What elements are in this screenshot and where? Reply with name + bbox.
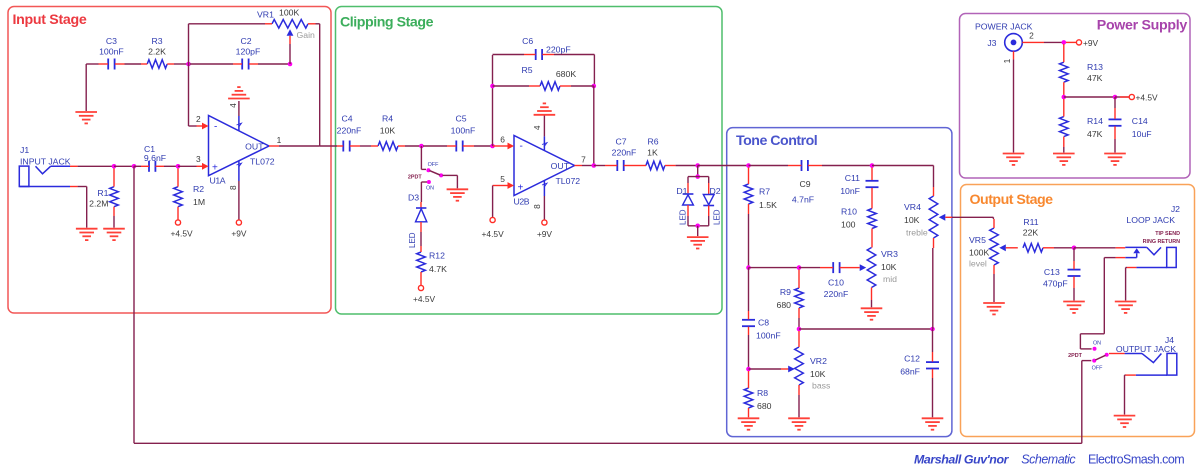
- svg-text:-: -: [214, 122, 217, 133]
- svg-text:10K: 10K: [904, 215, 920, 225]
- svg-text:D2: D2: [710, 186, 721, 196]
- label R6: [647, 137, 659, 158]
- caption Schematic: [1021, 453, 1076, 467]
- svg-text:TIP SEND: TIP SEND: [1155, 231, 1180, 237]
- wire bypass bottom: [134, 442, 1082, 444]
- label R2: [193, 184, 205, 207]
- wire switch common to ground: [443, 175, 458, 188]
- wire VR4 wiper to VR5: [945, 217, 993, 219]
- label D2: [710, 186, 722, 225]
- node U2B out: [592, 163, 597, 168]
- svg-text:VR5: VR5: [969, 235, 986, 245]
- wire feedback top left: [493, 54, 525, 56]
- svg-text:treble: treble: [906, 228, 928, 238]
- svg-text:C11: C11: [845, 173, 860, 183]
- resistor R8: [744, 371, 753, 417]
- resistor R7: [744, 168, 753, 215]
- wire C1 to node R2: [164, 165, 178, 167]
- capacitor C10: [820, 262, 852, 273]
- svg-text:100nF: 100nF: [756, 331, 781, 341]
- label VR3: [881, 249, 898, 284]
- label R3: [148, 36, 166, 57]
- wire switch OFF to bypass: [1082, 361, 1092, 444]
- svg-text:RING RETURN: RING RETURN: [1143, 239, 1181, 245]
- label D3: [408, 193, 419, 249]
- potentiometer VR3: [860, 248, 876, 308]
- label C10: [824, 278, 849, 300]
- svg-text:C8: C8: [758, 318, 769, 328]
- resistor R11: [1023, 244, 1054, 253]
- svg-text:ON: ON: [426, 186, 434, 192]
- pin 8 U1A: [228, 181, 239, 220]
- label R7: [759, 187, 777, 211]
- label VR2: [810, 356, 831, 391]
- pin 6 U2B: [500, 135, 514, 150]
- node R9 top: [797, 265, 802, 270]
- svg-text:R5: R5: [521, 65, 532, 75]
- caption ElectroSmash.com: [1088, 453, 1184, 467]
- ground C13: [1063, 302, 1085, 313]
- svg-text:C13: C13: [1044, 267, 1060, 277]
- wire node to C2: [190, 63, 233, 65]
- ground U1A pin4: [228, 87, 250, 98]
- label R8: [757, 388, 772, 411]
- svg-text:bass: bass: [812, 381, 831, 391]
- wire C5 to node: [474, 145, 493, 147]
- svg-text:INPUT JACK: INPUT JACK: [20, 157, 71, 167]
- label R4: [380, 114, 396, 136]
- svg-text:R12: R12: [429, 251, 445, 261]
- wire +4.5V row: [1064, 96, 1115, 98]
- wire J3 to node: [1044, 41, 1064, 43]
- wire C3-R3: [125, 63, 142, 65]
- wire C2 to node: [258, 63, 290, 65]
- label J3: [975, 22, 1033, 49]
- capacitor C11: [866, 168, 879, 199]
- ground R8: [738, 418, 760, 429]
- capacitor C13: [1068, 248, 1081, 301]
- resistor R12: [417, 246, 426, 285]
- svg-text:2: 2: [196, 114, 201, 124]
- Tone Control section box: [727, 128, 952, 437]
- svg-text:+9V: +9V: [537, 229, 553, 239]
- terminal +4.5V U2B: [482, 217, 505, 239]
- svg-text:2PDT: 2PDT: [1068, 353, 1082, 359]
- Input Stage title: [13, 12, 87, 28]
- wire node to pin3: [178, 165, 197, 167]
- node R5 left: [490, 84, 495, 89]
- svg-text:1: 1: [1002, 58, 1012, 63]
- label VR4: [904, 202, 928, 238]
- Input Stage section box: [8, 7, 331, 314]
- capacitor C3: [99, 59, 125, 70]
- svg-text:220nF: 220nF: [612, 148, 637, 158]
- wire feedback left: [492, 55, 494, 146]
- Power Supply title: [1097, 18, 1188, 34]
- svg-text:6: 6: [500, 135, 505, 145]
- svg-text:Output Stage: Output Stage: [970, 192, 1054, 208]
- wire node down to switch: [421, 146, 426, 169]
- wire feedback right down: [593, 86, 595, 166]
- svg-text:100K: 100K: [279, 8, 299, 18]
- svg-text:10K: 10K: [881, 262, 897, 272]
- wire R7 to node: [748, 214, 750, 268]
- capacitor C6: [524, 49, 554, 60]
- node VR2 top: [797, 327, 802, 332]
- wire D block to ground: [697, 226, 699, 236]
- pin 4 U2B: [532, 116, 544, 137]
- jack J1 input: [19, 166, 70, 186]
- wire U1A out: [279, 145, 337, 147]
- svg-text:level: level: [969, 258, 987, 268]
- svg-text:9.6nF: 9.6nF: [144, 153, 166, 163]
- ground D1D2: [687, 237, 709, 248]
- pin 2 U1A: [196, 114, 209, 130]
- resistor R13: [1060, 44, 1069, 95]
- svg-text:10uF: 10uF: [1132, 129, 1152, 139]
- label C6: [522, 36, 570, 54]
- svg-text:POWER JACK: POWER JACK: [975, 22, 1033, 32]
- svg-text:OFF: OFF: [1092, 366, 1103, 372]
- ground C3: [75, 112, 97, 123]
- capacitor C4: [337, 141, 360, 152]
- wire R5 right: [571, 85, 594, 87]
- label R5: [521, 65, 576, 79]
- wire bypass down: [133, 166, 135, 443]
- label R11: [1023, 217, 1039, 237]
- wire node to C10: [799, 267, 820, 269]
- wire pin7 to node: [582, 165, 594, 167]
- diode D2 LED: [703, 183, 714, 216]
- wire feedback top right: [554, 55, 594, 87]
- svg-text:1: 1: [277, 135, 282, 145]
- svg-text:680: 680: [777, 300, 792, 310]
- wire out to C7: [594, 165, 605, 167]
- node bypass: [132, 164, 137, 169]
- label VR5: [969, 235, 989, 269]
- caption Marshall Guv'nor: [914, 453, 1010, 467]
- svg-text:+9V: +9V: [231, 229, 247, 239]
- wire J1 tip lead: [70, 165, 78, 167]
- label J2: [1126, 204, 1180, 245]
- node R3/C2/pin2: [186, 62, 191, 67]
- wire VR5 wiper to R11: [1006, 247, 1018, 249]
- ground R1: [103, 229, 125, 240]
- label J1: [20, 145, 71, 167]
- label C12: [900, 354, 920, 377]
- label D1: [676, 186, 687, 225]
- svg-text:R10: R10: [841, 207, 857, 217]
- label C11: [840, 173, 860, 196]
- label C3: [99, 36, 124, 57]
- svg-text:LOOP JACK: LOOP JACK: [1126, 215, 1175, 225]
- wire J3 to ground: [1013, 59, 1015, 152]
- svg-text:22K: 22K: [1023, 227, 1039, 237]
- node R7/C10 row: [746, 265, 751, 270]
- wire node to C9: [749, 165, 789, 167]
- corner output/VR1: [0, 0, 1, 1]
- svg-text:8: 8: [532, 204, 542, 209]
- svg-text:Schematic: Schematic: [1021, 453, 1076, 467]
- svg-text:LED: LED: [679, 209, 688, 225]
- svg-text:100: 100: [841, 220, 856, 230]
- svg-text:680K: 680K: [556, 69, 576, 79]
- svg-text:OFF: OFF: [428, 162, 439, 168]
- svg-text:R9: R9: [780, 287, 791, 297]
- Clipping Stage title: [340, 15, 434, 31]
- svg-text:10K: 10K: [380, 125, 396, 135]
- wire J2 sleeve lead: [1126, 268, 1137, 301]
- svg-text:U1A: U1A: [210, 176, 226, 186]
- ground R14: [1053, 154, 1075, 165]
- ground J4: [1114, 416, 1136, 427]
- svg-text:mid: mid: [883, 274, 897, 284]
- label R10: [841, 207, 857, 230]
- potentiometer VR2: [788, 331, 803, 417]
- capacitor C14: [1109, 97, 1122, 153]
- svg-text:5: 5: [500, 174, 505, 184]
- svg-text:LED: LED: [712, 209, 721, 225]
- svg-text:+: +: [518, 183, 524, 194]
- Power Supply section box: [960, 14, 1191, 179]
- resistor R4: [371, 142, 405, 151]
- capacitor C5: [447, 141, 474, 152]
- svg-text:Gain: Gain: [297, 30, 316, 40]
- wire node to J2 tip: [1074, 247, 1125, 249]
- svg-text:R14: R14: [1087, 116, 1103, 126]
- pin 2 J3: [1022, 31, 1044, 43]
- label C13: [1043, 267, 1068, 288]
- jack J2 loop: [1125, 247, 1176, 267]
- terminal +9V U1A: [231, 220, 247, 239]
- resistor R6: [638, 161, 676, 170]
- terminal +9V U2B: [537, 220, 553, 239]
- node C13 top: [1072, 246, 1077, 251]
- svg-text:7: 7: [581, 155, 586, 165]
- jack J3 power: [1005, 34, 1023, 52]
- svg-text:1.5K: 1.5K: [759, 200, 777, 210]
- svg-text:R8: R8: [757, 388, 768, 398]
- wire node to corner VR4: [872, 166, 934, 188]
- svg-text:+9V: +9V: [1083, 38, 1099, 48]
- label R12: [429, 251, 447, 274]
- svg-text:VR4: VR4: [904, 202, 921, 212]
- wire J1 to C1: [78, 165, 114, 167]
- switch SW1 2PDT clipping: [408, 162, 443, 192]
- svg-text:+4.5V: +4.5V: [413, 294, 436, 304]
- node R2 top: [176, 164, 181, 169]
- svg-text:D1: D1: [676, 186, 687, 196]
- ground J1: [76, 229, 98, 240]
- wire J4 sleeve to ground: [1125, 375, 1136, 415]
- svg-text:C14: C14: [1132, 116, 1148, 126]
- svg-text:47K: 47K: [1087, 129, 1103, 139]
- svg-text:LED: LED: [408, 232, 417, 248]
- label C9: [792, 179, 814, 205]
- diode D1 LED: [683, 183, 694, 216]
- node D block bottom: [695, 224, 700, 229]
- label C14: [1132, 116, 1152, 139]
- ground U2B pin4: [534, 103, 556, 114]
- jack J4 output: [1125, 353, 1177, 375]
- terminal +4.5V R2: [170, 220, 193, 239]
- Clipping Stage section box: [336, 7, 723, 315]
- svg-text:220nF: 220nF: [824, 289, 849, 299]
- label C8: [756, 318, 781, 341]
- svg-text:4.7K: 4.7K: [429, 264, 447, 274]
- svg-text:C7: C7: [615, 137, 626, 147]
- svg-text:OUT: OUT: [551, 161, 570, 171]
- svg-text:100K: 100K: [969, 248, 989, 258]
- label C4: [337, 114, 362, 136]
- pin 8 U2B: [532, 196, 544, 220]
- wire VR1 right down to output: [316, 24, 320, 146]
- switch SW2 2PDT output: [1068, 341, 1109, 372]
- svg-text:100nF: 100nF: [99, 47, 124, 57]
- wire C3 left to ground corner: [86, 64, 98, 111]
- wire J2 ring to switch: [1080, 258, 1104, 349]
- wire VR4 bottom to node: [932, 248, 934, 329]
- wire to R9 node: [749, 267, 800, 269]
- wire R10 to VR3: [871, 240, 873, 248]
- svg-text:220nF: 220nF: [337, 125, 362, 135]
- terminal +4.5V: [1115, 93, 1158, 103]
- svg-text:R13: R13: [1087, 62, 1103, 72]
- wire VR1 top row: [189, 24, 266, 64]
- label C7: [612, 137, 637, 158]
- ground VR2: [788, 418, 810, 429]
- node +9V: [1062, 40, 1067, 45]
- wire R5 left: [493, 85, 530, 87]
- svg-text:J1: J1: [20, 145, 29, 155]
- node R5 right: [592, 84, 597, 89]
- wire D block stem: [697, 166, 699, 177]
- svg-text:10K: 10K: [810, 369, 826, 379]
- op-amp U1A: [209, 116, 275, 186]
- wire switch common to J4: [1109, 353, 1125, 355]
- svg-text:4: 4: [228, 103, 238, 108]
- svg-text:VR3: VR3: [881, 249, 898, 259]
- diode D3 LED: [416, 202, 427, 246]
- label R14: [1087, 116, 1103, 139]
- terminal +4.5V R12: [413, 285, 436, 304]
- svg-text:120pF: 120pF: [236, 47, 261, 57]
- svg-text:68nF: 68nF: [900, 367, 920, 377]
- node C8/R8: [746, 367, 751, 372]
- potentiometer VR1: [265, 20, 316, 65]
- wire node to bypass node: [114, 165, 134, 167]
- ground VR5: [983, 303, 1005, 314]
- svg-text:Input Stage: Input Stage: [13, 12, 87, 28]
- svg-text:10nF: 10nF: [840, 186, 860, 196]
- node R1 top: [112, 164, 117, 169]
- wire pin5 to +4.5V: [493, 186, 502, 218]
- svg-text:OUTPUT JACK: OUTPUT JACK: [1116, 344, 1176, 354]
- wire D block frame: [688, 177, 709, 226]
- svg-text:Marshall Guv'nor: Marshall Guv'nor: [914, 453, 1010, 467]
- wire switch ON to D3: [421, 182, 427, 202]
- svg-text:4: 4: [532, 125, 542, 130]
- wire J1 sleeve lead: [70, 187, 87, 228]
- svg-text:1M: 1M: [193, 197, 205, 207]
- potentiometer VR5: [990, 219, 1006, 302]
- resistor R1: [110, 169, 119, 228]
- svg-text:2.2M: 2.2M: [89, 199, 108, 209]
- svg-text:47K: 47K: [1087, 73, 1103, 83]
- Tone Control title: [736, 133, 817, 149]
- resistor R9: [795, 270, 804, 330]
- wire R4 to node: [405, 145, 421, 147]
- svg-text:1K: 1K: [647, 148, 658, 158]
- node switch/C5: [419, 144, 424, 149]
- ground VR3: [861, 308, 883, 319]
- capacitor C9: [788, 160, 822, 171]
- svg-text:R2: R2: [193, 184, 204, 194]
- svg-text:+4.5V: +4.5V: [482, 229, 505, 239]
- wire R11 to node: [1054, 247, 1074, 249]
- wire R3 to node: [174, 63, 189, 65]
- svg-text:C5: C5: [455, 114, 466, 124]
- node D1D2 top: [695, 163, 700, 168]
- svg-text:8: 8: [228, 185, 238, 190]
- label R1: [89, 188, 108, 209]
- svg-text:+4.5V: +4.5V: [170, 229, 193, 239]
- pin 5 U2B: [500, 174, 514, 189]
- wire to tone control: [698, 165, 749, 167]
- wire C10 to VR3 wiper: [852, 267, 860, 269]
- svg-text:ON: ON: [1093, 341, 1101, 347]
- svg-text:TL072: TL072: [556, 176, 581, 186]
- capacitor C8: [742, 268, 755, 369]
- wire node to C5: [423, 145, 447, 147]
- label VR1: [257, 8, 315, 41]
- wire node to C1: [134, 165, 141, 167]
- svg-text:3: 3: [196, 154, 201, 164]
- wire C9 to node: [822, 165, 872, 167]
- svg-text:+4.5V: +4.5V: [1136, 93, 1159, 103]
- node C2/VR1 wiper: [288, 62, 293, 67]
- wire node2 down to pin 2: [189, 64, 197, 126]
- pin 1 U1A: [269, 135, 282, 146]
- ground C12: [922, 418, 944, 429]
- potentiometer VR4: [929, 187, 945, 248]
- svg-text:R3: R3: [151, 36, 162, 46]
- svg-text:D3: D3: [408, 193, 419, 203]
- resistor R5: [529, 82, 571, 91]
- svg-text:220pF: 220pF: [546, 44, 571, 54]
- svg-text:ElectroSmash.com: ElectroSmash.com: [1088, 453, 1184, 467]
- capacitor C2: [233, 59, 258, 70]
- node C14 top: [1113, 95, 1118, 100]
- wire R6 to node: [676, 165, 698, 167]
- wire J2 ring lead: [1104, 257, 1125, 259]
- node C11 top: [870, 163, 875, 168]
- capacitor C7: [605, 160, 638, 171]
- resistor R3: [141, 60, 174, 69]
- svg-text:J3: J3: [987, 38, 996, 48]
- svg-text:Clipping Stage: Clipping Stage: [340, 15, 434, 31]
- svg-text:VR2: VR2: [810, 356, 827, 366]
- svg-text:C4: C4: [341, 114, 352, 124]
- ground clipping switch: [447, 189, 469, 200]
- svg-text:VR1: VR1: [257, 10, 274, 20]
- svg-text:100nF: 100nF: [451, 125, 476, 135]
- svg-text:2PDT: 2PDT: [408, 174, 422, 180]
- svg-text:2.2K: 2.2K: [148, 47, 166, 57]
- svg-text:4.7nF: 4.7nF: [792, 195, 814, 205]
- svg-text:C10: C10: [828, 278, 844, 288]
- svg-text:C3: C3: [106, 36, 117, 46]
